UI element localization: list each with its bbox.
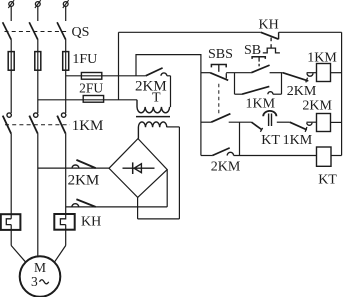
svg-text:SB: SB: [244, 43, 261, 58]
svg-text:KT: KT: [261, 133, 280, 148]
svg-text:2KM: 2KM: [68, 173, 100, 189]
svg-text:SBS: SBS: [208, 47, 233, 62]
svg-text:1KM: 1KM: [72, 118, 104, 134]
svg-text:2KM: 2KM: [211, 160, 241, 175]
svg-text:QS: QS: [72, 25, 90, 40]
svg-text:2KM: 2KM: [287, 84, 317, 99]
svg-text:T: T: [152, 91, 161, 106]
svg-text:1KM: 1KM: [283, 133, 313, 148]
svg-text:3: 3: [31, 274, 38, 289]
svg-text:M: M: [34, 260, 46, 275]
svg-text:KH: KH: [259, 17, 279, 32]
svg-text:1FU: 1FU: [72, 52, 97, 67]
svg-text:1KM: 1KM: [246, 96, 276, 111]
svg-text:KH: KH: [81, 215, 101, 230]
svg-text:KT: KT: [318, 173, 337, 188]
svg-text:2KM: 2KM: [302, 98, 332, 113]
svg-text:2KM: 2KM: [135, 78, 167, 94]
svg-text:1KM: 1KM: [307, 51, 337, 66]
svg-text:2FU: 2FU: [79, 81, 103, 96]
